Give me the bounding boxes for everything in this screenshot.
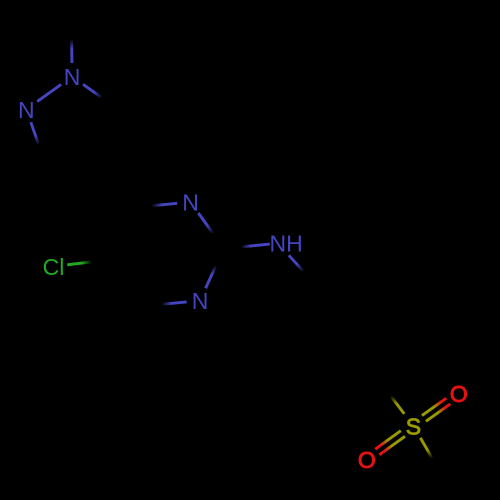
svg-text:NH: NH <box>270 231 303 257</box>
svg-text:Cl: Cl <box>43 254 65 280</box>
svg-text:N: N <box>64 64 81 90</box>
svg-text:N: N <box>182 189 199 215</box>
svg-text:O: O <box>450 381 468 407</box>
svg-text:O: O <box>358 447 376 473</box>
svg-text:N: N <box>18 97 35 123</box>
svg-text:S: S <box>406 413 421 439</box>
svg-text:N: N <box>192 288 209 314</box>
